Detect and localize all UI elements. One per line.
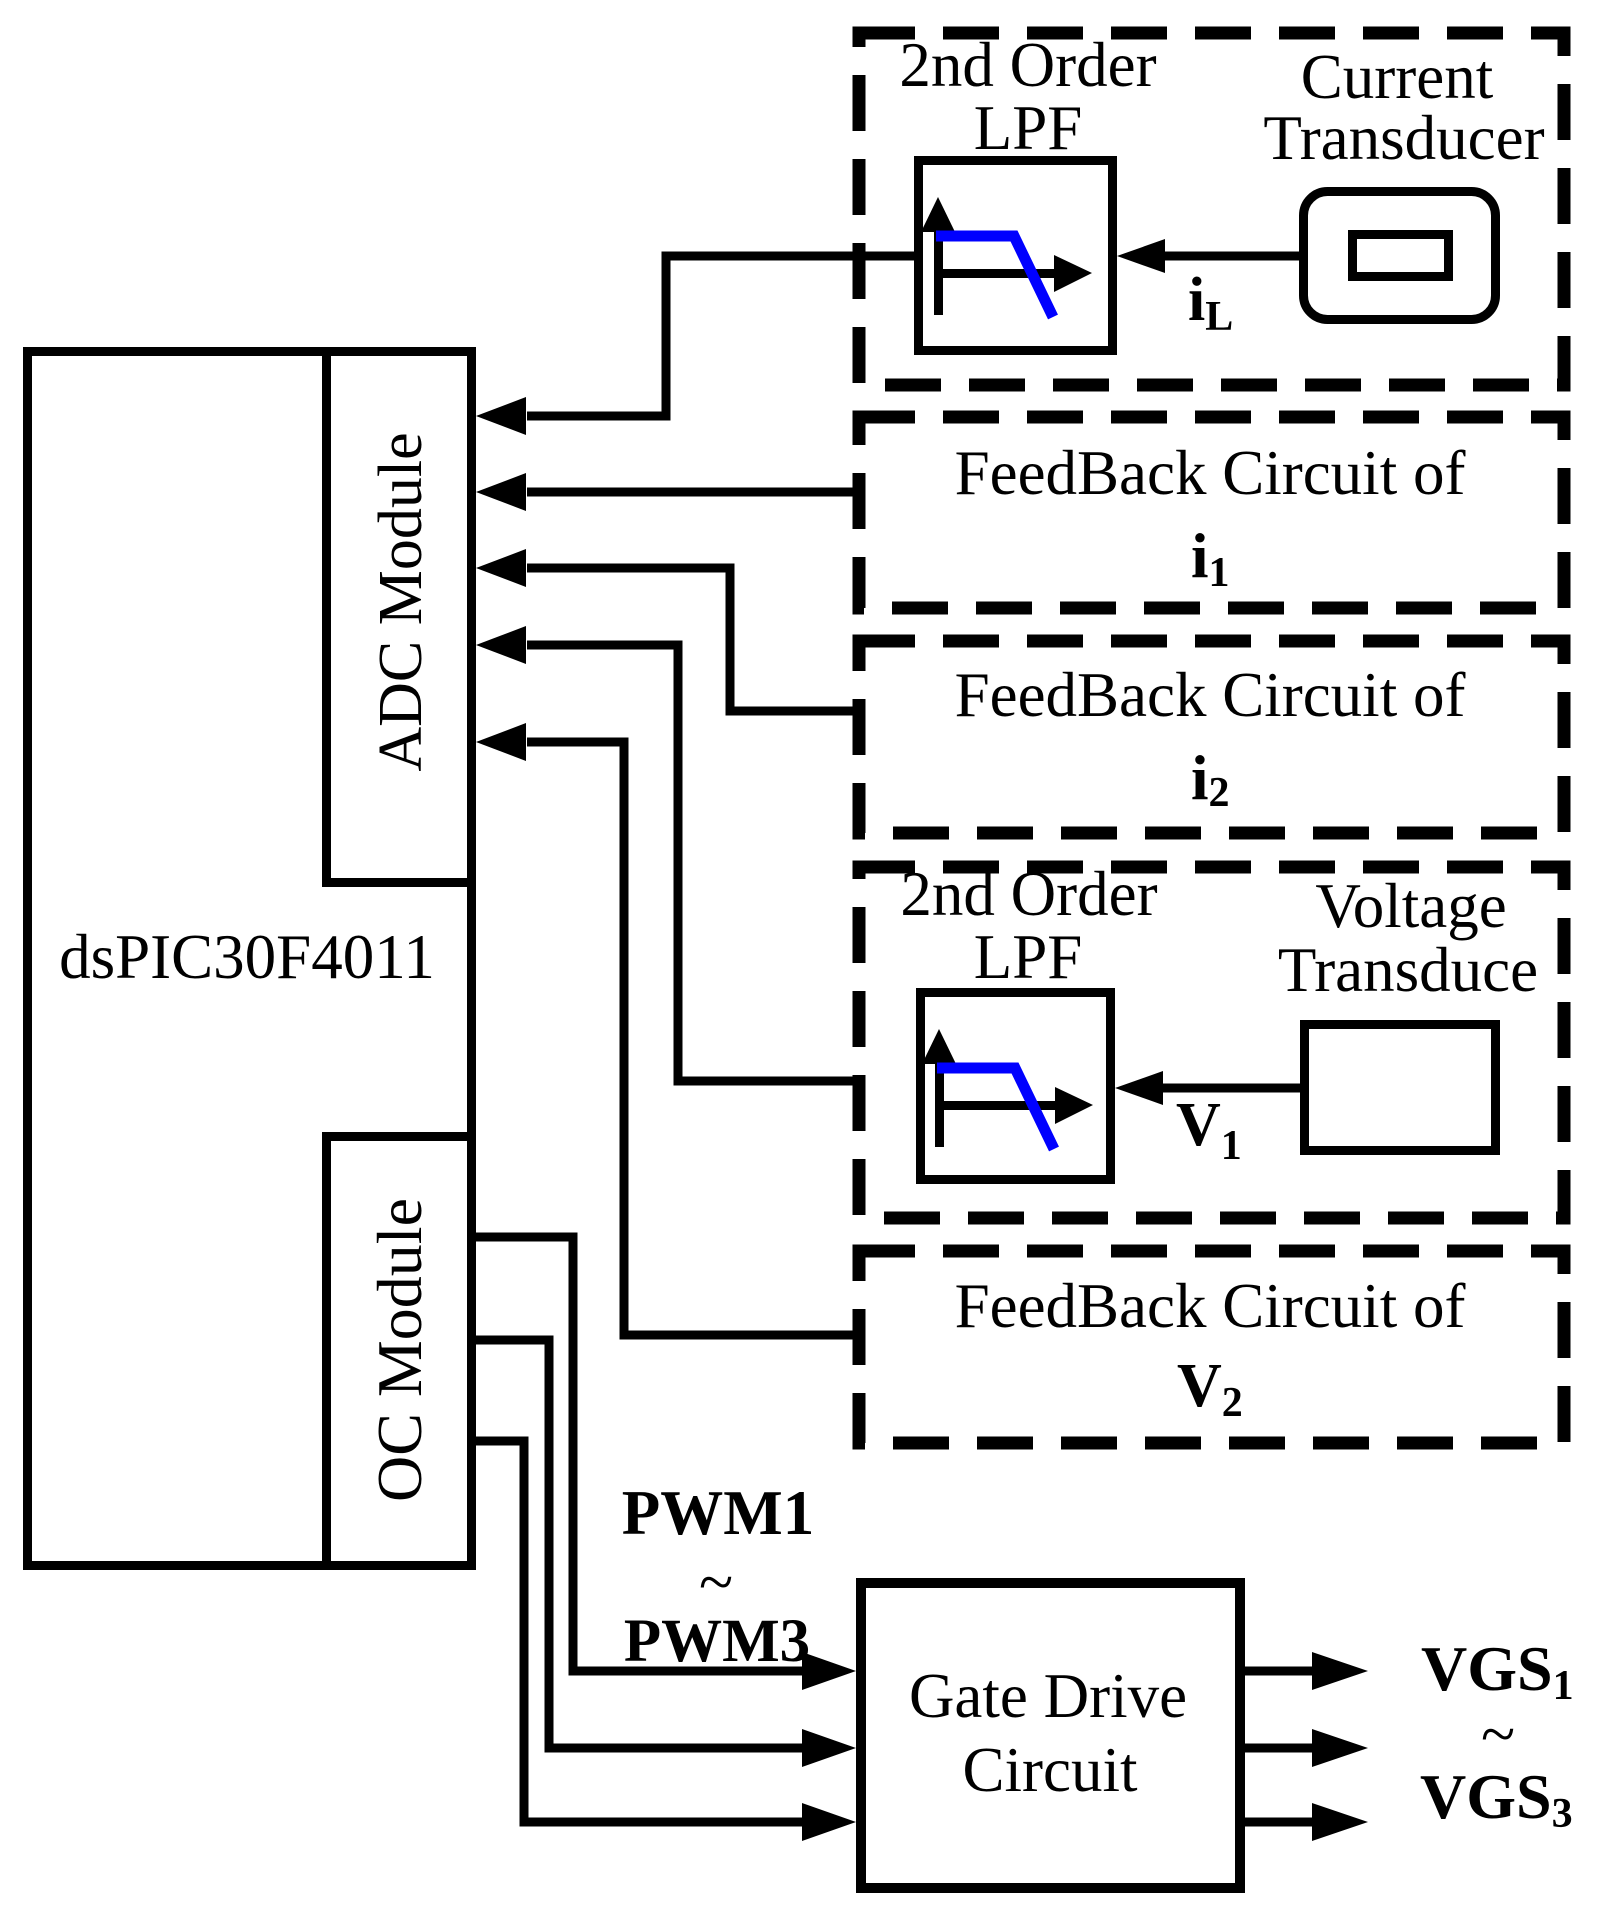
wire i_L: current transducer to LPF1: [1117, 239, 1304, 273]
svg-text:PWM3: PWM3: [624, 1608, 810, 1675]
block Gate Drive Circuit: [861, 1583, 1240, 1888]
wire gate drive output VGS1: [1245, 1652, 1368, 1690]
wire OC output PWM1 to gate drive input 1: [476, 1237, 856, 1690]
dashed box: FeedBack Circuit of V2: [859, 1251, 1564, 1443]
svg-text:FeedBack Circuit of: FeedBack Circuit of: [955, 1271, 1466, 1341]
wire LPF1 output to ADC channel 1: [476, 256, 914, 435]
wire i2 feedback to ADC channel 3: [476, 549, 859, 711]
svg-text:ADC Module: ADC Module: [367, 432, 435, 771]
wire V2 feedback to ADC channel 5: [476, 723, 859, 1335]
svg-text:FeedBack Circuit of: FeedBack Circuit of: [955, 660, 1466, 730]
dashed box: i_L feedback circuit (2nd Order LPF + Current Transducer): [859, 33, 1564, 385]
svg-text:Gate Drive: Gate Drive: [909, 1661, 1187, 1731]
dashed box: FeedBack Circuit of i2: [859, 641, 1564, 833]
block OC Module outline: [327, 1137, 472, 1566]
wire gate drive output VGS2: [1245, 1729, 1368, 1767]
svg-text:PWM1: PWM1: [622, 1478, 814, 1548]
block voltage transducer icon: [1305, 1025, 1496, 1151]
svg-text:FeedBack Circuit of: FeedBack Circuit of: [955, 438, 1466, 508]
block ADC Module outline: [327, 352, 472, 883]
wire OC output PWM3 to gate drive input 3: [476, 1441, 856, 1841]
svg-text:Voltage: Voltage: [1315, 871, 1506, 941]
svg-text:Current: Current: [1301, 42, 1494, 112]
svg-text:2nd Order: 2nd Order: [899, 30, 1156, 100]
block LPF2 (2nd order low-pass filter): [921, 993, 1111, 1180]
svg-text:LPF: LPF: [974, 922, 1083, 992]
svg-text:LPF: LPF: [974, 93, 1083, 163]
svg-text:~: ~: [699, 1547, 733, 1617]
dashed box: FeedBack Circuit of i1: [859, 417, 1564, 608]
svg-text:VGS1: VGS1: [1421, 1633, 1574, 1709]
wire gate drive output VGS3: [1245, 1803, 1368, 1841]
wire V1: voltage transducer to LPF2: [1115, 1071, 1305, 1105]
dashed box: V1 feedback circuit (2nd Order LPF + Voltage Transducer): [859, 867, 1564, 1218]
block current transducer icon: [1304, 192, 1496, 320]
wire LPF2 output to ADC channel 4: [476, 626, 859, 1081]
wire i1 feedback to ADC channel 2: [476, 473, 859, 511]
svg-text:dsPIC30F4011: dsPIC30F4011: [59, 922, 435, 992]
svg-text:Circuit: Circuit: [963, 1735, 1138, 1805]
svg-text:Transducer: Transducer: [1263, 103, 1544, 173]
svg-text:~: ~: [1481, 1699, 1515, 1769]
svg-text:Transduce: Transduce: [1278, 935, 1538, 1005]
block U1 dsPIC30F4011 outline: [28, 352, 472, 1566]
svg-text:VGS3: VGS3: [1420, 1761, 1573, 1837]
wire OC output PWM2 to gate drive input 2: [476, 1340, 856, 1767]
block LPF1 (2nd order low-pass filter): [919, 161, 1113, 351]
svg-text:2nd Order: 2nd Order: [900, 859, 1157, 929]
svg-text:OC Module: OC Module: [364, 1198, 435, 1502]
